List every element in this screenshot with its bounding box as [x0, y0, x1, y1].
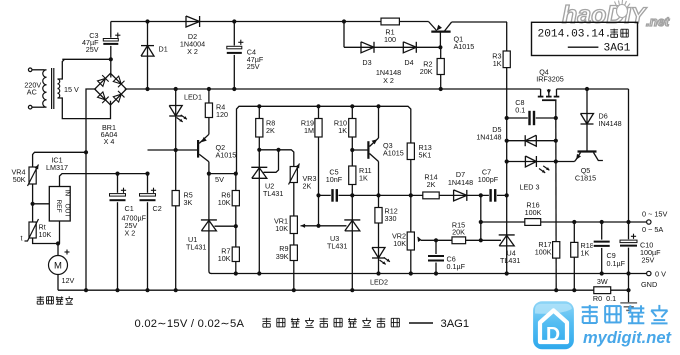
- svg-text:LED2: LED2: [370, 277, 388, 286]
- svg-text:1K: 1K: [493, 59, 502, 68]
- svg-text:50K: 50K: [13, 175, 26, 184]
- potentiometer VR1: [290, 216, 297, 234]
- wire VR2 bottom: [410, 250, 412, 274]
- node OUT motor: [56, 241, 60, 245]
- wire LED3 row: [507, 161, 556, 163]
- svg-text:25V: 25V: [247, 62, 260, 71]
- resistor R11: [349, 166, 356, 185]
- wire C3 vertical: [110, 22, 112, 60]
- capacitor C2: [139, 193, 157, 202]
- wire Q3 base: [352, 149, 368, 151]
- motor M: [49, 256, 68, 275]
- svg-text:2K: 2K: [303, 182, 312, 191]
- nodes ground rail: [84, 288, 88, 292]
- shunt regulator U3 TL431: [344, 219, 360, 221]
- wire Q5 emitter row: [556, 161, 575, 163]
- node U1 ref R6: [234, 224, 238, 228]
- resistor R1: [381, 18, 399, 25]
- svg-text:10K: 10K: [393, 239, 406, 248]
- LED LED1: [169, 115, 182, 117]
- node VR2 wiper C6: [434, 238, 438, 242]
- wire D5 row: [507, 140, 556, 142]
- potentiometer VR3: [290, 167, 297, 183]
- node U2 ref loop: [276, 148, 280, 152]
- wire R5-LED1 vertical: [175, 150, 177, 290]
- svg-text:2K: 2K: [266, 126, 275, 135]
- wire R3 lower vertical to U4: [506, 68, 508, 274]
- terminal 0-15V: [647, 220, 651, 224]
- svg-text:0 ~ 5A: 0 ~ 5A: [642, 225, 663, 234]
- svg-text:D3: D3: [362, 58, 371, 67]
- transformer T1 primary terminal bottom: [28, 105, 32, 109]
- svg-text:OUT: OUT: [64, 204, 71, 218]
- wire D1 vertical: [147, 22, 149, 90]
- svg-text:0.1µF: 0.1µF: [447, 262, 466, 271]
- svg-text:1K: 1K: [338, 126, 347, 135]
- svg-text:C1815: C1815: [575, 174, 596, 183]
- resistor R6: [232, 191, 239, 206]
- node Q3 collector R12: [376, 193, 380, 197]
- node D7 C7 branch: [479, 193, 483, 197]
- svg-text:haoDIY: haoDIY: [562, 1, 648, 29]
- resistor R13: [407, 143, 414, 160]
- wire bridge top drop: [110, 59, 112, 77]
- terminal 0V: [647, 271, 651, 275]
- capacitor C9: [593, 240, 611, 248]
- svg-text:GND: GND: [641, 280, 657, 289]
- svg-text:100K: 100K: [525, 208, 542, 217]
- svg-text:1M: 1M: [304, 126, 314, 135]
- svg-text:10K: 10K: [218, 254, 231, 263]
- svg-text:LM317: LM317: [46, 163, 68, 172]
- capacitor C4: [226, 46, 243, 55]
- diode D2: [199, 16, 201, 27]
- capacitor C6: [427, 254, 445, 263]
- resistor R16: [525, 219, 541, 226]
- capacitor C10: [619, 239, 638, 247]
- svg-text:R0 0.1: R0 0.1: [593, 294, 616, 303]
- node C10 top output: [626, 220, 630, 224]
- node Q2 collector 5V: [207, 172, 211, 176]
- wire output right vertical x628: [628, 89, 630, 274]
- svg-text:1N4148: 1N4148: [476, 133, 501, 142]
- svg-text:D: D: [546, 324, 560, 346]
- node D4 R2 Q1 base: [438, 45, 442, 49]
- node top D1: [145, 19, 149, 23]
- node top D3 branch: [342, 19, 346, 23]
- bridge rectifier BR1: [95, 73, 127, 105]
- node U2 cathode: [257, 148, 261, 152]
- nodes C8 row: [505, 116, 509, 120]
- svg-text:10K: 10K: [218, 198, 231, 207]
- svg-text:TL431: TL431: [186, 242, 206, 251]
- diode D6: [581, 123, 594, 125]
- resistor R9: [290, 245, 297, 261]
- resistor R15: [452, 237, 466, 244]
- potentiometer VR2: [407, 232, 414, 250]
- svg-text:25V: 25V: [642, 256, 655, 265]
- resistor R4: [205, 103, 212, 118]
- wire top rail y21: [111, 21, 429, 23]
- wire 0V row y273: [211, 273, 647, 275]
- wire R13-VR2 vertical: [410, 160, 412, 195]
- wire Q3 collector / R12 vertical: [378, 162, 380, 196]
- resistor R5: [172, 191, 179, 206]
- wire R4 vertical: [208, 89, 210, 134]
- svg-text:3K: 3K: [184, 198, 193, 207]
- svg-text:LED 3: LED 3: [520, 182, 540, 191]
- wire base row y150 left: [148, 149, 199, 151]
- wire C9 vertical: [601, 222, 603, 274]
- nodes 0V row: [234, 271, 238, 275]
- wire U4 ref row: [481, 239, 501, 241]
- transformer T1 windings: [43, 68, 60, 109]
- wire R6 R7 vertical: [235, 174, 237, 274]
- LED LED3: [535, 156, 537, 167]
- svg-text:.net: .net: [646, 14, 670, 29]
- svg-text:X 4: X 4: [104, 137, 115, 146]
- svg-text:10K: 10K: [39, 230, 52, 239]
- wire VR4-Rt vertical: [32, 184, 34, 222]
- node R18 top: [572, 220, 576, 224]
- svg-text:C1: C1: [125, 204, 134, 213]
- svg-text:A1015: A1015: [383, 148, 404, 157]
- LED LED2: [372, 257, 385, 259]
- svg-text:C2: C2: [153, 204, 162, 213]
- wire C2 vertical: [147, 174, 149, 291]
- wire C7 branch vertical x480: [480, 195, 482, 240]
- svg-text:IN4148: IN4148: [599, 119, 622, 128]
- wire transformer secondary bottom: [59, 98, 111, 119]
- wire R19 vertical: [318, 106, 320, 226]
- capacitor C3: [102, 38, 119, 46]
- watermark haoDIY.net: [562, 1, 670, 29]
- svg-text:3W: 3W: [597, 277, 608, 286]
- svg-text:12V: 12V: [62, 276, 75, 285]
- wire VR3-VR1-R9 vertical: [293, 183, 295, 217]
- svg-text:A1015: A1015: [216, 150, 237, 159]
- wire U3 ref: [319, 225, 347, 227]
- wire ground stub: [628, 290, 630, 303]
- wire Rt bottom: [33, 238, 58, 244]
- wire gate chain x556 down: [555, 118, 557, 290]
- diode D3: [373, 42, 375, 53]
- wire C6 vertical: [435, 240, 437, 273]
- node 5V R6: [234, 172, 238, 176]
- svg-text:120: 120: [216, 110, 228, 119]
- svg-text:3AG1: 3AG1: [441, 318, 470, 330]
- wire ground rail y290: [58, 289, 629, 291]
- node VR4 branch: [84, 150, 88, 154]
- node C5 left R19: [316, 193, 320, 197]
- resistor R19: [315, 119, 322, 138]
- svg-text:AC: AC: [27, 88, 37, 97]
- wire IC1 ref row: [33, 203, 50, 205]
- svg-text:TL431: TL431: [500, 256, 520, 265]
- svg-text:330: 330: [385, 214, 397, 223]
- IC IC1 LM317 box: [49, 187, 70, 222]
- label cooling fan (CJK): [37, 296, 44, 298]
- wire 15V horizontal: [62, 58, 111, 60]
- potentiometer VR4: [29, 167, 36, 184]
- transformer T1 primary terminal top: [28, 68, 32, 72]
- svg-text:20K: 20K: [420, 67, 433, 76]
- ground symbol: [620, 302, 637, 304]
- MOSFET Q4 IRF3205: [540, 89, 542, 97]
- diode D5: [524, 135, 526, 146]
- wire output row y222: [481, 221, 647, 223]
- wire Q2 collector vertical: [208, 162, 210, 174]
- svg-text:D4: D4: [404, 58, 413, 67]
- diode D4: [415, 42, 417, 53]
- wire transformer secondary top: [59, 59, 65, 79]
- node C9 top: [600, 220, 604, 224]
- wire motor branch: [57, 244, 59, 256]
- wire main rail y89: [125, 88, 541, 90]
- resistor R12: [375, 208, 382, 224]
- transistor Q1: [431, 31, 450, 33]
- svg-text:1N4148: 1N4148: [448, 178, 473, 187]
- wire IC1 out lead: [59, 221, 61, 244]
- svg-text:X 2: X 2: [383, 76, 394, 85]
- wire C4 vertical: [233, 22, 235, 90]
- svg-text:0.02∼15V / 0.02∼5A: 0.02∼15V / 0.02∼5A: [135, 318, 245, 330]
- svg-text:0.1: 0.1: [515, 106, 525, 115]
- svg-text:2014.03.14.: 2014.03.14.: [538, 28, 612, 40]
- svg-text:15 V: 15 V: [64, 85, 79, 94]
- diode D1: [141, 45, 154, 47]
- svg-text:25V: 25V: [86, 45, 99, 54]
- wire VR2 wiper row: [421, 239, 481, 241]
- nodes ctl top: [257, 104, 261, 108]
- wire VR1 wiper row: [302, 225, 319, 227]
- wire U2 cathode row to VR3: [259, 150, 294, 167]
- svg-text:TL431: TL431: [327, 242, 347, 251]
- resistor R18: [571, 242, 578, 257]
- svg-text:mydigit.net: mydigit.net: [583, 329, 673, 347]
- svg-text:2K: 2K: [427, 180, 436, 189]
- svg-text:REF: REF: [55, 200, 62, 213]
- svg-text:5K1: 5K1: [419, 151, 432, 160]
- svg-text:LED1: LED1: [184, 92, 202, 101]
- wire Q1 collector to R3 corner: [452, 21, 508, 23]
- wire mid row y195: [319, 194, 507, 196]
- svg-text:IRF3205: IRF3205: [536, 75, 564, 84]
- node 15V C3: [109, 57, 113, 61]
- svg-text:0 V: 0 V: [655, 270, 666, 279]
- node LED1 base row: [174, 148, 178, 152]
- wire IC1 in lead: [60, 174, 148, 187]
- node VR1 wiper R19: [316, 224, 320, 228]
- wire R12-LED2 vertical: [378, 195, 380, 273]
- shunt regulator U1 TL431: [201, 219, 217, 221]
- resistor R8: [256, 119, 263, 138]
- wire R8 U2 vertical: [258, 106, 260, 273]
- node C2 top: [145, 172, 149, 176]
- wire 5V rail: [209, 173, 236, 175]
- node REF junction: [30, 202, 34, 206]
- wire U2 ref loop: [264, 150, 279, 173]
- resistor R14: [423, 192, 439, 199]
- diode D7: [466, 190, 468, 201]
- date box 2014.03.14: [532, 22, 638, 55]
- svg-text:X 2: X 2: [187, 47, 198, 56]
- wire R18 vertical: [573, 222, 575, 290]
- svg-text:10nF: 10nF: [326, 175, 343, 184]
- wire D3-D4 branch: [343, 22, 345, 48]
- svg-text:0.1µF: 0.1µF: [607, 259, 626, 268]
- svg-text:D1: D1: [159, 44, 168, 53]
- resistor R0 current sense: [594, 287, 611, 294]
- capacitor C1: [109, 193, 127, 202]
- svg-text:0 ~ 15V: 0 ~ 15V: [642, 209, 667, 218]
- shunt regulator U4 TL431: [499, 234, 515, 236]
- wire R10 R11 vertical: [351, 106, 353, 150]
- node R15 U4 ref: [479, 238, 483, 242]
- svg-text:100: 100: [384, 35, 396, 44]
- wire R2 vertical: [440, 47, 442, 89]
- svg-text:1K: 1K: [581, 249, 590, 258]
- wire bridge left corner drop x86: [86, 89, 96, 290]
- svg-text:39K: 39K: [276, 252, 289, 261]
- node C7 right: [505, 193, 509, 197]
- svg-text:TL431: TL431: [263, 189, 283, 198]
- node Q3 base R10 R11: [350, 148, 354, 152]
- node R2 rail: [439, 87, 443, 91]
- transistor Q3: [367, 141, 369, 159]
- watermark mydigit text (CJK): [582, 306, 598, 308]
- wire C10 out vertical: [628, 274, 630, 291]
- svg-text:IN: IN: [64, 190, 71, 197]
- svg-text:3AG1: 3AG1: [604, 43, 631, 55]
- node branch out: [479, 220, 483, 224]
- wire D6 Q5 vertical: [586, 89, 588, 152]
- wire Q4 gate vertical: [555, 100, 557, 118]
- svg-text:5V: 5V: [215, 175, 224, 184]
- wire LED1 vertical: [175, 89, 177, 150]
- svg-text:A1015: A1015: [454, 42, 475, 51]
- wire U1 ref: [215, 225, 236, 227]
- capacitor C7: [489, 188, 497, 203]
- shunt regulator U2 TL431: [251, 166, 267, 168]
- thermistor Rt: [29, 222, 36, 238]
- node top C4: [232, 19, 236, 23]
- node C1 top: [115, 172, 119, 176]
- wire left cap row y173 C1 C2: [117, 174, 119, 291]
- wire VR4 branch: [33, 152, 86, 167]
- capacitor C8: [528, 110, 536, 126]
- nodes LED3 row: [505, 159, 509, 163]
- capacitor C5: [331, 188, 339, 203]
- svg-text:10K: 10K: [275, 224, 288, 233]
- resistor R7: [232, 247, 239, 262]
- wire Q1 base drop: [439, 32, 441, 47]
- wire U3 vertical: [351, 195, 353, 290]
- node C5 right U3: [350, 193, 354, 197]
- wire ctl top y106: [237, 106, 411, 173]
- svg-text:t: t: [21, 236, 23, 243]
- svg-text:100K: 100K: [535, 247, 552, 256]
- resistor R10: [349, 119, 356, 138]
- resistor R2: [437, 59, 444, 75]
- resistor R17: [553, 242, 560, 259]
- svg-text:1K: 1K: [359, 173, 368, 182]
- transistor Q2: [197, 140, 199, 158]
- wire R3 vertical x507: [506, 22, 508, 51]
- wire Q3 emitter vertical: [378, 106, 380, 138]
- svg-text:100pF: 100pF: [478, 175, 499, 184]
- transistor Q5: [578, 150, 597, 152]
- nodes main rail: [145, 87, 149, 91]
- nodes D5 row: [505, 139, 509, 143]
- wire U1 vertical: [208, 174, 210, 271]
- resistor R3: [503, 51, 510, 68]
- svg-text:M: M: [54, 261, 62, 272]
- wire transformer primary leads: [32, 69, 44, 71]
- wire C8 row: [507, 117, 556, 119]
- svg-text:X 2: X 2: [125, 228, 136, 237]
- svg-text:20K: 20K: [452, 228, 465, 237]
- node R13 VR2 mid: [409, 193, 413, 197]
